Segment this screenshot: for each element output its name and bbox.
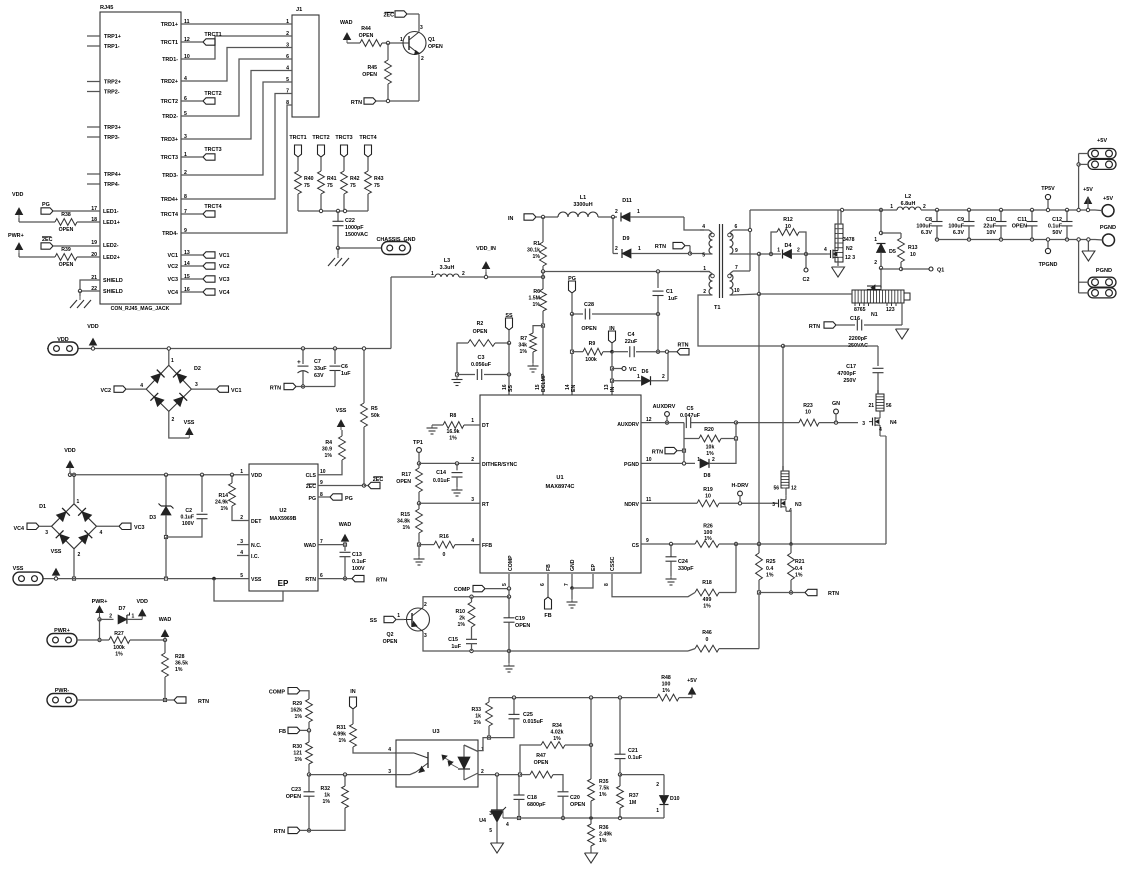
svg-text:C3: C3 — [478, 355, 485, 361]
svg-text:DCLMP: DCLMP — [541, 373, 547, 392]
svg-text:R30: R30 — [292, 744, 302, 750]
svg-text:TRCT2: TRCT2 — [312, 135, 329, 141]
capacitor C3 — [457, 355, 511, 380]
svg-text:OPEN: OPEN — [396, 479, 411, 485]
svg-text:VC4: VC4 — [14, 526, 25, 532]
connector +5V pair — [1079, 138, 1116, 169]
svg-text:MAX8974C: MAX8974C — [546, 484, 575, 490]
svg-text:VC3: VC3 — [134, 525, 145, 531]
zener diode D3 — [149, 475, 173, 539]
svg-text:PGND: PGND — [1096, 268, 1112, 274]
svg-text:TP5V: TP5V — [1041, 186, 1055, 192]
ground at R8 — [427, 425, 438, 434]
svg-text:R36: R36 — [599, 825, 609, 831]
svg-text:MAX5969B: MAX5969B — [270, 516, 297, 522]
resistor R10 — [455, 597, 474, 637]
svg-text:COMP: COMP — [508, 555, 514, 571]
test point AUXDRV — [653, 404, 676, 424]
terminal PGND circle — [1095, 225, 1116, 246]
svg-text:TRP2+: TRP2+ — [104, 80, 121, 86]
ground under C24 — [666, 576, 677, 585]
svg-text:4: 4 — [702, 224, 705, 230]
svg-text:1%: 1% — [323, 799, 331, 805]
net flag PG (EN) — [568, 276, 576, 316]
svg-text:2200pF: 2200pF — [849, 336, 868, 342]
svg-text:10: 10 — [320, 469, 326, 475]
svg-text:R14: R14 — [218, 493, 228, 499]
svg-text:4: 4 — [824, 247, 827, 253]
svg-text:RTN: RTN — [270, 386, 281, 392]
svg-text:RTN: RTN — [305, 577, 316, 583]
resistor R16 — [419, 534, 480, 558]
transformer T1 core — [714, 224, 723, 311]
capacitor C8 — [916, 208, 942, 241]
svg-text:4: 4 — [506, 822, 509, 828]
RJ45 pin 13 VC1 label — [168, 250, 190, 259]
wire N3 drain drop — [782, 346, 784, 471]
net flag RTN at U2 — [318, 575, 387, 583]
RJ45 pin TRP1- stub — [87, 44, 120, 50]
svg-text:RTN: RTN — [351, 100, 362, 106]
svg-text:WAD: WAD — [159, 617, 172, 623]
resistor R5 — [361, 347, 380, 486]
svg-text:0.015uF: 0.015uF — [523, 719, 544, 725]
svg-text:12 3: 12 3 — [845, 255, 855, 261]
svg-text:TRD1-: TRD1- — [162, 57, 178, 63]
svg-text:+5V: +5V — [687, 678, 697, 684]
capacitor C22 — [333, 211, 369, 248]
U2 pin7 WAD — [304, 539, 323, 549]
svg-text:D2: D2 — [194, 366, 201, 372]
resistor R42 75 — [341, 157, 360, 211]
wire TRD1+ to J1 pin1 — [181, 23, 292, 25]
svg-text:1%: 1% — [766, 573, 774, 579]
svg-text:VDD: VDD — [251, 473, 262, 479]
svg-text:6.3V: 6.3V — [921, 230, 932, 236]
svg-text:+5V: +5V — [1083, 187, 1093, 193]
net flag FB — [544, 574, 551, 619]
resistor R39 — [55, 247, 100, 268]
svg-text:2: 2 — [424, 602, 427, 608]
wire L3 row — [391, 272, 545, 279]
resistor R38 — [55, 212, 100, 233]
U3 pin1 — [481, 747, 484, 753]
net flag TRCT3 top — [335, 135, 352, 157]
svg-text:4: 4 — [100, 530, 103, 536]
inductor L3 — [431, 258, 465, 277]
svg-text:N4: N4 — [890, 420, 897, 426]
svg-text:0: 0 — [706, 637, 709, 643]
svg-text:30.1k: 30.1k — [527, 248, 540, 254]
svg-text:DET: DET — [251, 519, 262, 525]
resistor R40 75 — [295, 157, 314, 211]
connector PWR- oval — [47, 688, 165, 707]
net flag RTN at Q1 — [351, 98, 376, 106]
net flag TRCT2 top — [312, 135, 329, 157]
svg-text:0.1uF: 0.1uF — [1048, 224, 1063, 230]
wire IN to D9 — [612, 217, 614, 254]
svg-text:C4: C4 — [628, 332, 635, 338]
svg-text:10: 10 — [734, 288, 740, 294]
svg-text:AUXDRV: AUXDRV — [617, 422, 639, 428]
svg-text:N1: N1 — [871, 312, 878, 318]
svg-text:C5: C5 — [687, 406, 694, 412]
svg-text:Q1: Q1 — [937, 268, 944, 274]
svg-text:OPEN: OPEN — [383, 639, 398, 645]
svg-text:VC2: VC2 — [168, 264, 179, 270]
resistor R18 — [695, 544, 736, 610]
svg-text:4.02k: 4.02k — [551, 730, 564, 736]
capacitor C24 — [666, 544, 695, 576]
svg-text:RTN: RTN — [274, 829, 285, 835]
chassis ground for shield — [70, 291, 91, 308]
optocoupler U3 box — [396, 729, 478, 787]
svg-text:PG: PG — [42, 202, 50, 208]
ground under N2 — [832, 267, 845, 277]
wire Q1 emitter — [376, 55, 419, 103]
transformer T1 lower left winding — [700, 266, 714, 295]
U3 phototransistor — [414, 752, 428, 773]
svg-text:1uF: 1uF — [668, 296, 678, 302]
svg-text:22uF: 22uF — [983, 224, 996, 230]
svg-text:RTN: RTN — [655, 244, 666, 250]
connector CHASSIS_GND — [377, 237, 416, 255]
svg-text:VC1: VC1 — [168, 253, 179, 259]
U1 bottom pin EP — [591, 564, 597, 571]
svg-text:R46: R46 — [702, 630, 712, 636]
svg-text:VDD_IN: VDD_IN — [476, 246, 496, 252]
wire D4 to N2 gate — [806, 253, 827, 255]
mosfet N4 — [862, 373, 897, 436]
wire TRD route — [181, 59, 292, 116]
svg-text:1%: 1% — [175, 667, 183, 673]
svg-text:U2: U2 — [279, 508, 286, 514]
svg-text:2: 2 — [471, 457, 474, 463]
svg-text:0.1uF: 0.1uF — [180, 515, 194, 521]
svg-text:Q2: Q2 — [387, 632, 394, 638]
U1 pin11 NDRV — [624, 497, 651, 508]
capacitor C2 — [166, 475, 208, 579]
svg-text:R40: R40 — [304, 176, 314, 182]
svg-text:1%: 1% — [533, 254, 541, 260]
svg-text:1: 1 — [637, 374, 640, 380]
test point C2 stub — [803, 254, 810, 283]
U3 pin3 — [388, 769, 391, 775]
U1 pin12 AUXDRV — [617, 417, 652, 428]
svg-text:AUXDRV: AUXDRV — [653, 404, 676, 410]
output bottom rail — [937, 239, 1095, 241]
RJ45 part label — [111, 306, 170, 312]
svg-text:1%: 1% — [599, 838, 607, 844]
wire N2 drain — [840, 210, 842, 224]
svg-text:COMP: COMP — [269, 690, 286, 696]
svg-text:RTN: RTN — [652, 450, 663, 456]
svg-text:3: 3 — [45, 530, 48, 536]
transformer T1 upper right winding — [728, 224, 759, 254]
capacitor C21 — [615, 698, 643, 777]
RJ45 pin 17 LED1- label — [91, 206, 119, 215]
J1 pin 6 — [286, 54, 289, 60]
svg-text:C13: C13 — [352, 552, 362, 558]
svg-text:R33: R33 — [471, 707, 481, 713]
RJ45 pin 10 TRD1- label — [162, 54, 190, 63]
svg-text:VC3: VC3 — [219, 277, 230, 283]
resistor R1 — [527, 217, 546, 272]
svg-text:C6: C6 — [341, 364, 348, 370]
ground under C14 — [452, 487, 463, 496]
svg-text:1: 1 — [77, 499, 80, 505]
svg-text:9: 9 — [735, 248, 738, 254]
net flag RTN bottom — [274, 827, 309, 835]
svg-text:121: 121 — [293, 751, 302, 757]
svg-text:C18: C18 — [527, 795, 537, 801]
net flag TRCT4 top — [359, 135, 376, 157]
chassis ground under C22 — [328, 248, 349, 266]
svg-text:FB: FB — [279, 729, 286, 735]
wire D1 bottom VSS — [72, 549, 75, 580]
svg-text:7.5k: 7.5k — [599, 786, 609, 792]
svg-text:DT: DT — [482, 423, 490, 429]
svg-text:C28: C28 — [584, 302, 594, 308]
svg-text:10: 10 — [705, 494, 711, 500]
svg-text:TRCT3: TRCT3 — [161, 155, 178, 161]
svg-text:2: 2 — [662, 374, 665, 380]
svg-text:R2: R2 — [477, 321, 484, 327]
svg-text:Q1: Q1 — [428, 37, 435, 43]
svg-text:100uF: 100uF — [916, 224, 932, 230]
svg-text:C2: C2 — [185, 508, 192, 514]
RJ45 pin 16 VC4 label — [168, 287, 190, 296]
svg-text:FFB: FFB — [482, 543, 492, 549]
svg-text:0.01uF: 0.01uF — [433, 478, 451, 484]
svg-text:2: 2 — [797, 248, 800, 254]
svg-text:162k: 162k — [290, 708, 302, 714]
svg-text:5: 5 — [489, 828, 492, 834]
test point VC — [610, 352, 636, 373]
RJ45 pin TRP2- stub — [87, 90, 120, 96]
wire RT row — [419, 502, 480, 504]
RJ45 pin 15 VC3 label — [168, 274, 190, 283]
net flag RTN at PWR- — [165, 697, 209, 705]
svg-text:FB: FB — [546, 564, 552, 571]
svg-text:OPEN: OPEN — [570, 802, 585, 808]
capacitor C4 — [612, 332, 677, 357]
mosfet N1 package — [852, 290, 904, 318]
svg-text:TRCT1: TRCT1 — [161, 40, 178, 46]
svg-text:OPEN: OPEN — [534, 760, 549, 766]
svg-text:100k: 100k — [113, 645, 125, 651]
svg-text:34k: 34k — [518, 343, 527, 349]
svg-text:R25: R25 — [766, 559, 776, 565]
svg-text:1M: 1M — [629, 800, 636, 806]
resistor R34 — [520, 723, 593, 775]
svg-text:10: 10 — [646, 457, 652, 463]
diode D5 branch — [874, 210, 896, 270]
svg-text:EN: EN — [571, 385, 577, 392]
svg-text:TRP1-: TRP1- — [104, 44, 120, 50]
net flag SS at Q2 — [370, 616, 404, 624]
capacitor C15 — [448, 637, 477, 651]
svg-text:N3: N3 — [795, 502, 802, 508]
svg-text:2: 2 — [712, 457, 715, 463]
svg-text:U3: U3 — [432, 729, 439, 735]
RJ45 pin 9 TRD4- label — [162, 228, 187, 237]
svg-text:R17: R17 — [401, 472, 411, 478]
RJ45 pin TRP1+ stub — [87, 34, 121, 40]
wire PWR+ drop — [98, 619, 101, 641]
net flag SS — [505, 313, 513, 345]
wire Q2 emitter — [423, 632, 511, 653]
svg-text:2: 2 — [923, 204, 926, 210]
wire TRD route — [181, 48, 292, 82]
secondary lower rail — [783, 345, 878, 347]
svg-text:TRD3-: TRD3- — [162, 173, 178, 179]
svg-text:I.C.: I.C. — [251, 554, 260, 560]
svg-text:1%: 1% — [533, 302, 541, 308]
svg-text:C19: C19 — [515, 616, 525, 622]
svg-text:1%: 1% — [339, 738, 347, 744]
svg-text:TRD3+: TRD3+ — [161, 137, 178, 143]
svg-text:1%: 1% — [295, 757, 303, 763]
svg-text:TRCT4: TRCT4 — [161, 212, 178, 218]
wire VDD rail corner — [390, 348, 391, 350]
svg-text:VSS: VSS — [251, 577, 262, 583]
resistor R12 — [771, 217, 806, 254]
net flag FB bottom — [279, 727, 311, 735]
svg-text:OPEN: OPEN — [359, 33, 374, 39]
U1 pin3 RT — [471, 497, 490, 508]
resistor R15 — [397, 503, 422, 546]
svg-text:3: 3 — [424, 633, 427, 639]
shunt regulator U4 — [479, 775, 509, 843]
svg-text:D5: D5 — [889, 249, 896, 255]
wire T1 pins 6-7 to output rail — [748, 210, 751, 271]
svg-text:R5: R5 — [371, 406, 378, 412]
svg-text:21: 21 — [868, 403, 874, 409]
svg-text:1: 1 — [240, 469, 243, 475]
svg-text:10V: 10V — [986, 230, 996, 236]
wire Q2 collector — [423, 595, 509, 608]
wire N4 source drop — [885, 436, 887, 544]
power flag WAD at U2 — [318, 522, 351, 546]
wire D2 top — [167, 347, 170, 365]
svg-text:2: 2 — [78, 552, 81, 558]
svg-text:1%: 1% — [703, 604, 711, 610]
svg-text:RTN: RTN — [376, 578, 387, 584]
wire D9 to T1 pin5 — [690, 253, 704, 255]
U2 pin4 I.C. — [237, 550, 260, 560]
capacitor C7 33uF — [297, 347, 327, 388]
power flag VSS left — [51, 549, 62, 580]
U1 bottom pin COMP — [502, 555, 514, 586]
J1 pin 7 — [286, 89, 289, 95]
ground triangle U4 — [491, 843, 504, 853]
svg-text:6: 6 — [540, 583, 546, 586]
svg-text:2: 2 — [462, 271, 465, 277]
power flag WAD — [340, 20, 360, 43]
svg-text:IN: IN — [350, 689, 355, 695]
svg-text:4700pF: 4700pF — [837, 371, 856, 377]
svg-text:LED2+: LED2+ — [103, 255, 120, 261]
connector PWR+ oval — [47, 628, 100, 647]
capacitor C17 — [837, 346, 883, 394]
svg-text:R6: R6 — [533, 289, 540, 295]
svg-text:14: 14 — [565, 384, 571, 390]
svg-text:TRD2+: TRD2+ — [161, 79, 178, 85]
resistor R2 — [455, 321, 509, 376]
J1 pin 5 — [286, 77, 289, 83]
U1 pin9 CS — [632, 538, 649, 549]
wire D5 to N1 drain — [880, 268, 882, 288]
resistor R6 — [528, 272, 546, 328]
svg-text:FB: FB — [544, 613, 551, 619]
svg-text:34.8k: 34.8k — [397, 519, 410, 525]
svg-text:TRD4+: TRD4+ — [161, 197, 178, 203]
RJ45 pin TRP4- stub — [87, 182, 120, 188]
svg-text:3: 3 — [862, 421, 865, 427]
svg-text:R23: R23 — [803, 403, 813, 409]
resistor R17 — [396, 463, 422, 505]
wire PGND row — [641, 462, 695, 465]
wire TRD route — [181, 105, 292, 233]
svg-text:9: 9 — [646, 538, 649, 544]
svg-text:COMP: COMP — [454, 587, 471, 593]
long vertical from pin9-10 node — [757, 294, 760, 546]
svg-text:1: 1 — [637, 209, 640, 215]
svg-text:D4: D4 — [785, 243, 792, 249]
svg-text:1: 1 — [638, 246, 641, 252]
resistor R35 — [588, 698, 610, 818]
connector J1 box — [292, 7, 319, 117]
svg-text:1: 1 — [890, 204, 893, 210]
capacitor C25 — [489, 698, 544, 738]
inductor L1 — [558, 195, 617, 217]
power flag PWR+ arrow — [92, 599, 108, 621]
svg-text:TRCT2: TRCT2 — [161, 99, 178, 105]
resistor R13 — [881, 233, 918, 271]
svg-text:1%: 1% — [795, 573, 803, 579]
svg-text:TRCT4: TRCT4 — [204, 204, 221, 210]
net flag VC4 — [14, 523, 52, 532]
net flag COMP — [454, 585, 509, 593]
svg-text:56: 56 — [886, 403, 892, 409]
svg-text:VSS: VSS — [336, 408, 347, 414]
svg-text:3: 3 — [471, 497, 474, 503]
svg-text:U4: U4 — [479, 818, 486, 824]
power flag VDD above D1 — [64, 448, 75, 476]
svg-text:1%: 1% — [449, 436, 457, 442]
J1 pin 2 — [286, 31, 289, 37]
svg-text:C17: C17 — [846, 364, 856, 370]
svg-text:PWR+: PWR+ — [92, 599, 108, 605]
svg-text:RTN: RTN — [198, 699, 209, 705]
RJ45 pin 21 SHIELD label — [91, 275, 123, 284]
svg-text:75: 75 — [304, 183, 310, 189]
svg-text:0.4: 0.4 — [795, 566, 802, 572]
svg-text:75: 75 — [374, 183, 380, 189]
svg-text:12: 12 — [791, 486, 797, 492]
svg-text:EP: EP — [278, 579, 289, 588]
svg-text:D11: D11 — [622, 198, 632, 204]
svg-text:6.8uH: 6.8uH — [901, 201, 916, 207]
transformer T1 lower right winding — [728, 265, 759, 295]
svg-text:TRP4+: TRP4+ — [104, 172, 121, 178]
svg-text:1uF: 1uF — [341, 371, 351, 377]
wire R44 to Q1 base — [382, 41, 404, 44]
+5V feedback rail — [489, 696, 657, 699]
resistor R9 — [570, 341, 612, 363]
U3 LED arrows — [442, 755, 458, 768]
